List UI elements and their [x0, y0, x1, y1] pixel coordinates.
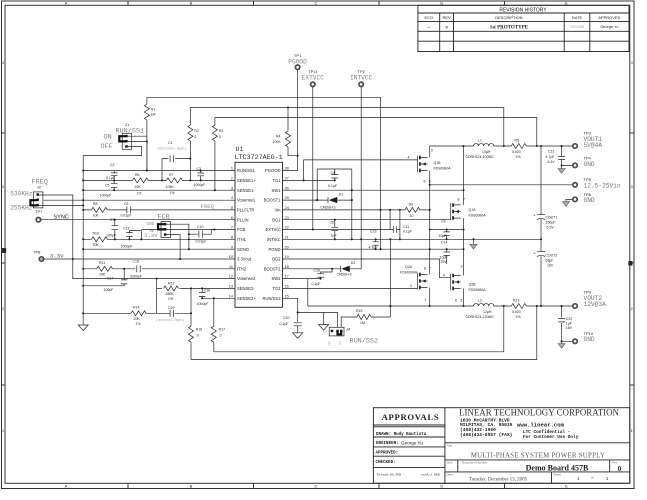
svg-text:APPROVED: APPROVED — [598, 15, 620, 20]
svg-text:D2: D2 — [351, 261, 356, 265]
svg-text:R13: R13 — [513, 298, 519, 302]
svg-text:1%: 1% — [137, 192, 142, 196]
svg-text:4: 4 — [443, 274, 445, 278]
svg-text:280K: 280K — [166, 292, 175, 296]
svg-text:Vosense2: Vosense2 — [237, 276, 256, 281]
inductor L2 12uH — [466, 298, 495, 319]
svg-text:0.020: 0.020 — [512, 150, 521, 154]
svg-text:C19: C19 — [168, 306, 174, 310]
wire J3 pins — [141, 224, 235, 259]
svg-text:C9: C9 — [441, 219, 446, 223]
svg-text:Vin: Vin — [275, 208, 282, 213]
diode D1 CMDSH-3 — [283, 193, 352, 210]
test point TP10 GND — [573, 339, 577, 343]
resistor R15 1M — [341, 239, 390, 327]
capacitor C19 optional — [156, 306, 191, 322]
transistor Q2A FDS6990A — [400, 265, 431, 301]
svg-text:R15: R15 — [356, 309, 362, 313]
wire Vosense2 row pin12 corner — [156, 278, 158, 280]
svg-text:3.3V: 3.3V — [144, 232, 158, 239]
svg-text:TP9: TP9 — [584, 290, 592, 295]
resistor R6 20K — [132, 173, 148, 196]
svg-text:C15: C15 — [133, 260, 139, 264]
resistor R9 10 — [405, 203, 420, 218]
svg-text:APPROVALS: APPROVALS — [382, 412, 440, 422]
svg-text:1%: 1% — [136, 322, 141, 326]
zone tick marks top — [128, 1, 505, 5]
svg-text:R6: R6 — [135, 173, 140, 177]
svg-text:C13: C13 — [370, 230, 376, 234]
svg-text:0: 0 — [618, 465, 622, 473]
svg-text:6.3V: 6.3V — [547, 226, 555, 230]
svg-text:DATE: DATE — [572, 15, 583, 20]
svg-text:1: 1 — [231, 167, 233, 171]
svg-text:For Customer Use Only: For Customer Use Only — [523, 435, 579, 440]
title block — [373, 408, 629, 484]
svg-text:100pF: 100pF — [106, 234, 116, 238]
svg-text:1000pF: 1000pF — [197, 302, 209, 306]
svg-text:8: 8 — [231, 235, 233, 239]
inductor L1 10uH — [466, 138, 495, 159]
svg-text:1M: 1M — [151, 113, 156, 117]
svg-text:GND: GND — [584, 161, 595, 168]
resistor R12 280K — [157, 279, 235, 302]
svg-text:15: 15 — [285, 294, 289, 298]
svg-text:1000pF: 1000pF — [121, 245, 133, 249]
wire TP11 to EXTVcc pin22 — [312, 87, 314, 230]
svg-text:0.020: 0.020 — [512, 310, 521, 314]
svg-text:2: 2 — [2, 307, 4, 311]
svg-text:SYNC: SYNC — [54, 214, 69, 220]
svg-text:R10: R10 — [93, 231, 99, 235]
svg-text:C17: C17 — [107, 276, 113, 280]
svg-text:Sheet: Sheet — [553, 473, 561, 477]
U1 pin numbers 28-15 — [285, 167, 289, 299]
test point TP6 GND — [573, 197, 577, 201]
zone letters top — [65, 1, 569, 6]
svg-text:0.1µF: 0.1µF — [312, 282, 321, 286]
wire VOUT2 rail with L2 R13 — [308, 303, 573, 308]
wire PLLFLTR row pin5 — [83, 209, 235, 211]
svg-text:2: 2 — [231, 177, 233, 181]
svg-text:ON: ON — [339, 341, 342, 345]
svg-text:OFF: OFF — [329, 340, 332, 345]
wire TG1 to Q1B gate — [304, 160, 418, 181]
svg-text:CMDSH-3: CMDSH-3 — [337, 272, 352, 276]
svg-text:B: B — [190, 1, 193, 6]
wire VOUT1 rail with L1 R5 — [430, 143, 573, 148]
svg-text:12V@3A: 12V@3A — [584, 301, 607, 308]
capacitor C17 100pF — [83, 269, 127, 292]
svg-text:C6: C6 — [124, 202, 129, 206]
svg-text:COUT1: COUT1 — [546, 216, 558, 220]
svg-text:4: 4 — [631, 61, 633, 65]
wire TG1 row pin27 — [283, 169, 352, 239]
svg-text:TP3: TP3 — [584, 131, 592, 136]
svg-text:20: 20 — [285, 245, 289, 249]
wire SENSE1+ rail — [190, 108, 503, 147]
wire BG1 row pin23 to Q1A gate — [283, 219, 451, 221]
svg-text:C16: C16 — [314, 268, 320, 272]
wire RUN/SS2 net to J4 — [298, 312, 338, 327]
svg-text:R3: R3 — [219, 129, 224, 133]
svg-text:2: 2 — [631, 307, 633, 311]
svg-text:SGND: SGND — [237, 247, 249, 252]
svg-text:1µF: 1µF — [566, 322, 572, 326]
resistor R1 — [144, 97, 155, 170]
op-amp U1 LTC3727AEG-1 controller box — [235, 146, 283, 307]
svg-text:0: 0 — [194, 135, 196, 139]
test point TP5 12.5-25Vin — [573, 183, 577, 187]
svg-text:1000pF: 1000pF — [194, 183, 206, 187]
wire SENSE2+ row pin14 — [202, 297, 235, 299]
svg-text:C: C — [315, 1, 318, 6]
svg-text:C4: C4 — [331, 171, 336, 175]
resistor R17 0 — [211, 298, 225, 352]
svg-text:20K: 20K — [135, 185, 142, 189]
zone ticks left — [2, 133, 6, 385]
zone tick marks bottom — [128, 483, 505, 488]
svg-text:1%: 1% — [516, 155, 521, 159]
diode D2 CMDSH-3 — [283, 261, 362, 276]
wire INTVcc rail drop — [380, 97, 382, 249]
svg-text:10: 10 — [410, 214, 414, 218]
wire Vin rail to TP5 — [430, 184, 573, 186]
resistor R5 0.020 — [512, 138, 521, 158]
svg-text:of: of — [591, 476, 594, 480]
svg-text:C1: C1 — [168, 141, 173, 145]
svg-text:Date:: Date: — [447, 473, 454, 477]
wire BG2 row pin19 to Q2B gate — [283, 259, 451, 278]
svg-text:28: 28 — [285, 167, 289, 171]
svg-text:R5: R5 — [515, 138, 520, 142]
svg-text:22: 22 — [285, 226, 289, 230]
svg-text:PLLIN: PLLIN — [237, 217, 249, 222]
svg-text:8: 8 — [458, 197, 460, 201]
wire TP1 to pin28 — [283, 70, 298, 171]
transistor Q1A FDS6990A — [451, 197, 487, 219]
svg-text:6: 6 — [455, 298, 457, 302]
wire SW1 row pin26 — [283, 189, 464, 191]
svg-text:SENSE2+: SENSE2+ — [237, 296, 256, 301]
svg-text:10µF: 10µF — [439, 234, 447, 238]
svg-text:24: 24 — [285, 206, 289, 210]
capacitor C15 3300pF — [130, 260, 142, 279]
transistor Q2B FDS6990A — [443, 264, 486, 302]
jumper J1 RUN/SS1 — [101, 122, 145, 151]
wire J1 pins — [83, 136, 147, 155]
wire EXTVcc row pin22 and capacitor C11 — [283, 210, 400, 239]
svg-text:CHECKED:: CHECKED: — [376, 461, 396, 465]
svg-text:3: 3 — [2, 185, 4, 189]
svg-text:Q2A: Q2A — [405, 265, 413, 269]
svg-text:ECO: ECO — [424, 15, 433, 20]
capacitor C6 0.01uF — [121, 202, 132, 218]
svg-text:C11: C11 — [403, 225, 409, 229]
svg-text:CMDSH-3: CMDSH-3 — [321, 205, 336, 209]
svg-text:FREQ: FREQ — [201, 203, 215, 210]
svg-text:26: 26 — [285, 186, 289, 190]
svg-text:Size: Size — [447, 461, 453, 465]
svg-text:6.3V: 6.3V — [548, 160, 556, 164]
svg-text:10K: 10K — [93, 213, 100, 217]
svg-text:1M: 1M — [360, 321, 365, 325]
resistor R14 20K — [83, 306, 156, 326]
svg-text:xxxA_x.DSN: xxxA_x.DSN — [421, 473, 440, 477]
svg-text:A: A — [65, 1, 68, 6]
svg-text:C12: C12 — [123, 227, 129, 231]
svg-text:C8: C8 — [330, 220, 335, 224]
wire SENSE2- trace to R13 — [191, 306, 537, 360]
svg-text:B: B — [190, 484, 193, 489]
wire Vosense1 row pin4 from J2 — [44, 199, 235, 201]
svg-text:1: 1 — [631, 429, 633, 433]
capacitor C20 0.1uF — [280, 316, 302, 333]
svg-text:0: 0 — [220, 333, 222, 337]
capacitor C5 1000pF — [100, 180, 118, 197]
svg-text:R7: R7 — [169, 173, 174, 177]
capacitor C18 1000pF — [197, 288, 211, 305]
svg-text:C7: C7 — [110, 218, 115, 222]
svg-text:30K: 30K — [93, 243, 100, 247]
svg-text:3: 3 — [431, 149, 433, 153]
svg-text:CDRH124-120MC: CDRH124-120MC — [466, 315, 495, 319]
capacitor C7 100pF — [106, 218, 118, 239]
svg-text:13: 13 — [229, 285, 233, 289]
node RUN/SS1 row wire pin1 — [83, 141, 235, 170]
capacitor COUT2 68uF — [533, 251, 557, 268]
ground at INTVcc bypass — [473, 239, 475, 244]
wire ground bus — [82, 156, 84, 326]
svg-text:100K: 100K — [273, 140, 282, 144]
svg-text:0: 0 — [197, 333, 199, 337]
svg-text:DCxxxA_00.PCB: DCxxxA_00.PCB — [377, 473, 401, 477]
svg-text:LTC3727AEG-1: LTC3727AEG-1 — [235, 154, 283, 162]
svg-text:OFF: OFF — [101, 143, 113, 151]
svg-text:11: 11 — [229, 265, 233, 269]
svg-text:1%: 1% — [168, 297, 173, 301]
svg-text:RUN/SS1: RUN/SS1 — [237, 168, 256, 173]
svg-text:ENGINEER:: ENGINEER: — [376, 442, 399, 446]
svg-text:R9: R9 — [409, 203, 414, 207]
zone numbers right — [631, 61, 633, 433]
svg-text:3.3V: 3.3V — [50, 253, 64, 260]
wire TP2 to INTVcc and D2 anode — [360, 87, 362, 269]
svg-text:TP11: TP11 — [308, 69, 318, 74]
svg-text:INTVCC: INTVCC — [350, 74, 373, 81]
wire INTVcc top rail — [147, 96, 381, 98]
svg-text:530KHz: 530KHz — [10, 191, 33, 198]
jumper J3 FCB — [144, 214, 171, 239]
svg-text:REVISION HISTORY: REVISION HISTORY — [499, 7, 547, 13]
svg-text:R11: R11 — [99, 261, 105, 265]
svg-text:100pF: 100pF — [104, 288, 114, 292]
svg-text:0.1µF: 0.1µF — [280, 322, 289, 326]
wire SENSE1- rail — [215, 118, 537, 147]
svg-text:SW2: SW2 — [272, 276, 282, 281]
svg-text:17: 17 — [285, 275, 289, 279]
svg-text:7: 7 — [231, 226, 233, 230]
transistor Q1B FDS6990A — [418, 149, 452, 184]
svg-text:12: 12 — [229, 275, 233, 279]
svg-text:3: 3 — [231, 186, 233, 190]
svg-text:D1: D1 — [339, 193, 344, 197]
svg-text:19: 19 — [285, 255, 289, 259]
svg-text:16V: 16V — [566, 326, 573, 330]
svg-text:Q1B: Q1B — [434, 161, 442, 165]
test point TP3 VOUT1 — [573, 144, 577, 148]
svg-text:TP8: TP8 — [33, 250, 41, 255]
svg-text:C5: C5 — [105, 184, 110, 188]
svg-text:3.3Vout: 3.3Vout — [237, 257, 252, 262]
ground below C22 — [561, 341, 563, 343]
test point TP4 GND — [573, 163, 577, 167]
wire Vin column Q1B/Q2A — [429, 146, 431, 306]
zone letters bottom — [65, 484, 569, 489]
svg-text:2: 2 — [410, 284, 412, 288]
ground at TP6 — [566, 199, 572, 201]
svg-text:C21: C21 — [548, 150, 554, 154]
svg-text:FCB: FCB — [237, 227, 246, 232]
capacitor C1 optional — [158, 141, 191, 180]
svg-text:5: 5 — [231, 206, 233, 210]
svg-text:L1: L1 — [478, 138, 482, 142]
svg-text:BOOST2: BOOST2 — [264, 266, 281, 271]
wire SENSE2+ trace to L2 node — [214, 306, 504, 352]
svg-text:4: 4 — [2, 61, 4, 65]
jumper J4 RUN/SS2 — [329, 327, 379, 346]
svg-text:3: 3 — [631, 185, 633, 189]
svg-text:6: 6 — [231, 216, 233, 220]
resistor R7 105K — [166, 173, 183, 195]
svg-text:R4: R4 — [276, 134, 281, 138]
svg-text:George Yu: George Yu — [600, 25, 618, 29]
svg-text:Document Number: Document Number — [462, 461, 487, 465]
svg-text:0.01µF: 0.01µF — [196, 239, 207, 243]
svg-text:R12: R12 — [168, 282, 174, 286]
capacitor C13 4.7uF — [369, 230, 379, 250]
svg-text:Title: Title — [447, 444, 453, 448]
svg-text:MULTI-PHASE SYSTEM POWER SUPPL: MULTI-PHASE SYSTEM POWER SUPPLY — [471, 452, 605, 459]
svg-text:C2: C2 — [110, 163, 115, 167]
resistor R4 100K — [273, 108, 298, 156]
revision history table — [418, 5, 629, 51]
capacitor C3 1000pF — [194, 167, 206, 187]
wire SENSE1+ row pin2 — [83, 179, 235, 181]
wire INTVcc row pin21 — [283, 238, 542, 240]
svg-text:0: 0 — [219, 135, 221, 139]
svg-text:TP5: TP5 — [584, 177, 592, 182]
svg-text:1: 1 — [2, 429, 4, 433]
svg-text:0.01µF: 0.01µF — [121, 213, 132, 217]
svg-text:Demo Board 457B: Demo Board 457B — [526, 463, 589, 472]
svg-text:PGOOD: PGOOD — [265, 168, 280, 173]
test point TP9 VOUT2 — [573, 304, 577, 308]
ground below C20 — [293, 333, 303, 339]
wire SYNC row pin6 — [41, 219, 235, 221]
svg-text:(Optional-Open): (Optional-Open) — [156, 318, 185, 322]
svg-text:3: 3 — [461, 264, 463, 268]
resistor R11 15K — [97, 261, 113, 277]
svg-text:TP4: TP4 — [584, 155, 592, 160]
svg-text:RUN/SS2: RUN/SS2 — [350, 338, 379, 346]
svg-text:TP2: TP2 — [358, 69, 366, 74]
svg-text:(Optional-Open): (Optional-Open) — [158, 146, 187, 150]
svg-text:COUT2: COUT2 — [546, 254, 558, 258]
svg-text:GND: GND — [584, 197, 595, 204]
svg-text:0.1µF: 0.1µF — [328, 184, 337, 188]
svg-text:TG1: TG1 — [272, 178, 281, 183]
resistor R13 0.020 — [512, 298, 521, 318]
capacitor C2 — [106, 163, 118, 180]
svg-text:12.5-25Vin: 12.5-25Vin — [584, 183, 621, 190]
svg-text:R14: R14 — [133, 306, 139, 310]
svg-text:CDRH124-100MC: CDRH124-100MC — [466, 155, 495, 159]
svg-text:www.linear.com: www.linear.com — [517, 422, 565, 429]
svg-text:15K: 15K — [99, 272, 106, 276]
svg-text:C20: C20 — [283, 316, 289, 320]
wire ITH1 row pin8 — [83, 238, 235, 240]
svg-text:BG2: BG2 — [272, 257, 281, 262]
svg-text:C18: C18 — [204, 288, 210, 292]
svg-text:3300pF: 3300pF — [130, 274, 142, 278]
svg-text:27: 27 — [285, 177, 289, 181]
svg-text:TG2: TG2 — [272, 286, 281, 291]
wire SW2 row pin17 — [283, 279, 321, 306]
svg-text:ITH2: ITH2 — [237, 266, 247, 271]
svg-text:EXTVCC: EXTVCC — [302, 74, 325, 81]
svg-text:FDS6990A: FDS6990A — [434, 167, 452, 171]
jumper J2 FREQ — [10, 179, 48, 212]
wire 3.3Vout row pin10 — [41, 258, 235, 260]
svg-text:Tuesday, December 13, 2005: Tuesday, December 13, 2005 — [469, 477, 528, 482]
wire SENSE1- row pin3 — [83, 189, 235, 191]
svg-text:4: 4 — [231, 196, 233, 200]
wire COUT column — [540, 146, 542, 306]
svg-text:10: 10 — [229, 255, 233, 259]
svg-text:A: A — [65, 484, 68, 489]
capacitor C12 1000pF — [121, 227, 142, 249]
svg-text:SENSE2-: SENSE2- — [237, 286, 255, 291]
svg-text:20K: 20K — [134, 317, 141, 321]
svg-text:D: D — [440, 484, 443, 489]
wire ITH2 row pin11 — [83, 268, 235, 270]
capacitor C21 4.7uF — [546, 146, 573, 165]
svg-text:255KHz: 255KHz — [10, 205, 33, 212]
svg-text:R8: R8 — [93, 202, 98, 206]
svg-text:George Yu: George Yu — [401, 440, 423, 445]
svg-text:U1: U1 — [236, 146, 244, 154]
svg-text:105K: 105K — [166, 185, 175, 189]
svg-text:0.1µF: 0.1µF — [403, 230, 412, 234]
svg-text:RUN/SS2: RUN/SS2 — [263, 296, 282, 301]
resistor R16 0 — [189, 326, 203, 359]
U1 pin numbers 1-14 — [229, 167, 233, 299]
svg-text:25: 25 — [285, 196, 289, 200]
svg-text:1000pF: 1000pF — [100, 193, 112, 197]
svg-text:C3: C3 — [197, 167, 202, 171]
svg-text:GND: GND — [147, 222, 155, 227]
svg-text:TP1: TP1 — [294, 53, 302, 58]
wire SW1 bypass row — [430, 229, 464, 231]
svg-text:68µF: 68µF — [546, 259, 554, 263]
svg-text:C: C — [315, 484, 318, 489]
svg-text:16V: 16V — [547, 264, 554, 268]
svg-text:FDS6990A: FDS6990A — [469, 214, 487, 218]
capacitor C10 0.01uF — [189, 225, 215, 243]
svg-text:9: 9 — [231, 245, 233, 249]
svg-text:10µH: 10µH — [482, 150, 491, 154]
